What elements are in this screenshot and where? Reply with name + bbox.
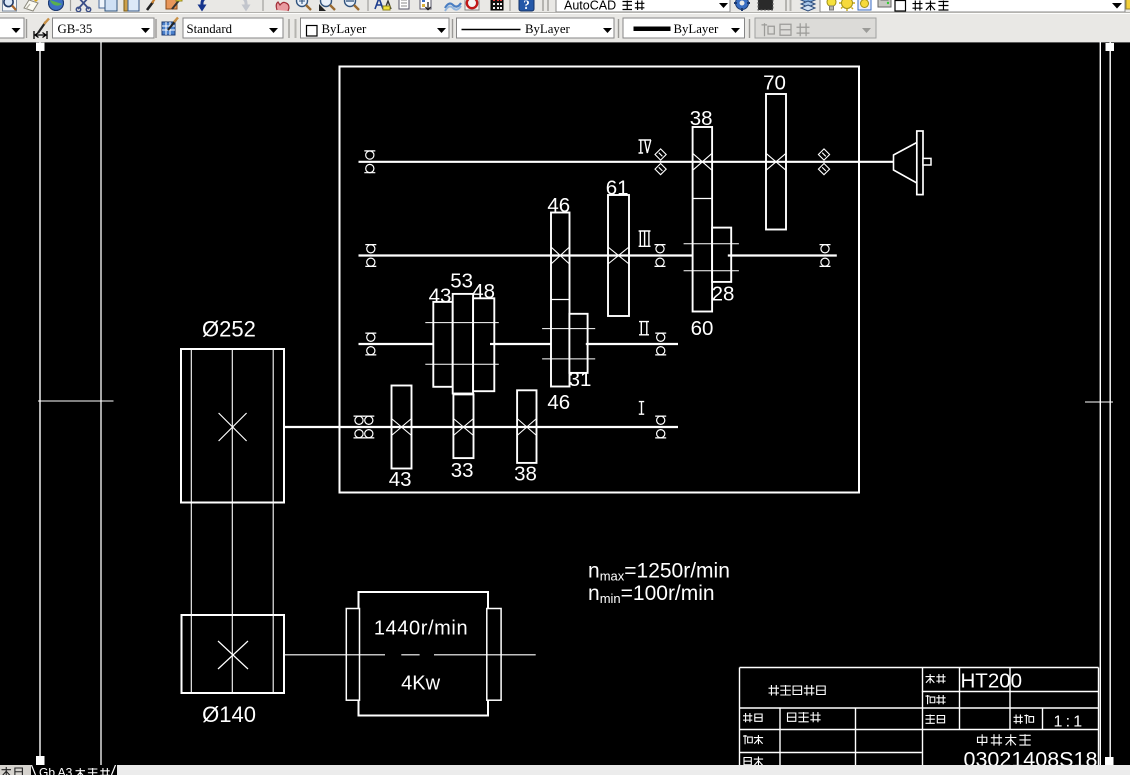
lineweight combo (623, 18, 745, 38)
X mark gear 33 (453, 419, 473, 436)
svg-text:31: 31 (569, 368, 592, 391)
layer state printer (878, 0, 891, 7)
gear 31 on shaft II (569, 314, 587, 373)
bearing shaft III mid (655, 245, 666, 267)
label 材料 (926, 674, 935, 683)
grip top-right (1106, 43, 1115, 51)
X mark pulley D140 (218, 641, 248, 669)
icon my workspace (758, 0, 773, 10)
shaft II stub in gear 31 (586, 343, 588, 345)
bearing shaft III right (820, 245, 831, 267)
separator (262, 0, 264, 11)
workspace combo arrow (719, 3, 728, 8)
separator (749, 19, 751, 38)
shaft III line (359, 254, 837, 256)
svg-text:60: 60 (691, 317, 714, 340)
svg-text:GB-35: GB-35 (58, 22, 93, 36)
svg-text:4Kw: 4Kw (401, 673, 440, 695)
svg-text:ByLayer: ByLayer (525, 22, 571, 36)
icon print preview (3, 0, 17, 11)
plot style text 随颜色 (762, 23, 775, 36)
output coupling bar (917, 131, 923, 195)
svg-text:Ø252: Ø252 (202, 317, 256, 342)
svg-text:Ø140: Ø140 (202, 702, 256, 727)
pulley D140 (182, 615, 285, 693)
left centering mark (38, 400, 114, 402)
svg-text:nmin=100r/min: nmin=100r/min (588, 582, 715, 606)
layer combo arrow (1112, 3, 1122, 9)
gear 46 block division (551, 299, 570, 301)
label 比例 (1014, 715, 1023, 724)
gear 28 (712, 228, 731, 282)
sheet left outer border line (39, 42, 41, 765)
svg-text:53: 53 (450, 270, 473, 293)
label shaft III (639, 231, 651, 246)
shaft IV line (359, 161, 894, 163)
icon zoom realtime (297, 0, 312, 10)
label 件数 (926, 695, 935, 704)
separator (367, 0, 369, 11)
sheet left inner border line (100, 42, 102, 765)
icon text find (375, 0, 391, 10)
icon block color (166, 0, 182, 9)
bearing shaft II right (655, 333, 666, 355)
X mark gear 38 shaft I (517, 419, 536, 436)
icon paste (124, 0, 139, 11)
X mark pulley D252 (219, 413, 247, 441)
svg-text:HT200: HT200 (961, 670, 1023, 693)
layer name 粗实线 (913, 1, 923, 11)
label 指导 (743, 735, 752, 744)
tab separator backslash (32, 765, 36, 775)
X mark gear 43 (392, 419, 412, 436)
icon plot red circle (465, 0, 479, 10)
name 商者洲 (788, 713, 796, 721)
shaft III through gear 46 (551, 254, 570, 256)
X mark gear 38 (693, 153, 712, 170)
shaft III stub in gear 28 (728, 254, 731, 256)
svg-text:ByLayer: ByLayer (322, 22, 368, 36)
icon make layer current (partial) (1126, 0, 1130, 9)
linetype combo (457, 18, 615, 38)
svg-text:43: 43 (429, 285, 452, 308)
output coupling tab (923, 158, 931, 165)
motor box (359, 592, 489, 716)
gearbox frame (340, 67, 860, 493)
svg-text:ByLayer: ByLayer (674, 22, 720, 36)
linetype sample (462, 29, 521, 31)
icon table style (162, 18, 178, 36)
gear 48 on shaft II (473, 298, 494, 391)
lineweight sample (634, 27, 671, 32)
diamond bearing shaft IV a (655, 149, 666, 175)
X mark gear 61 (608, 247, 629, 264)
belt right edge (272, 349, 274, 693)
svg-text:28: 28 (712, 283, 735, 306)
separator (155, 19, 157, 38)
grip bottom-right (1105, 757, 1114, 765)
icon redo (234, 0, 251, 12)
right centering mark (1085, 401, 1113, 403)
pitch lines cluster 60-28 (684, 244, 739, 271)
icon pan hand (276, 2, 289, 11)
diamond bearing shaft IV b (818, 149, 829, 175)
gear block 38/60 division (693, 198, 713, 200)
svg-text:38: 38 (514, 462, 537, 485)
icon cut scissors (76, 0, 90, 12)
bearing shaft IV left (364, 151, 375, 173)
svg-text:46: 46 (547, 194, 570, 217)
gear 38 on shaft I (517, 390, 536, 463)
gear block 38/60 (693, 127, 713, 312)
svg-text:43: 43 (389, 468, 412, 491)
drag handles (785, 0, 787, 11)
gear 46/46 block shaft III-II (551, 213, 570, 387)
motor centerline (284, 654, 536, 656)
svg-text:70: 70 (763, 72, 786, 95)
color ByLayer combo (301, 18, 450, 38)
title text 传动系统图 (769, 685, 780, 696)
GB-35 combo (53, 18, 155, 38)
gear 33 on shaft I (453, 394, 473, 458)
pulley center axis line (231, 349, 233, 693)
icon layer props (420, 0, 431, 10)
svg-text:46: 46 (547, 391, 570, 414)
label 重量 (926, 715, 935, 724)
icon dim style (34, 19, 49, 40)
label shaft II (639, 322, 649, 335)
gear 61 (608, 195, 629, 316)
svg-text:nmax=1250r/min: nmax=1250r/min (588, 560, 730, 584)
label shaft IV (639, 140, 652, 153)
label 审查 (cut) (744, 758, 751, 765)
bearing shaft I left b (363, 416, 374, 438)
separator (452, 19, 454, 38)
model tab background (0, 765, 31, 775)
tab bar empty area (117, 765, 1130, 775)
shaft I line (284, 426, 678, 428)
bearing shaft II left (365, 333, 376, 355)
toolbar drag handles (542, 0, 544, 11)
icon zoom previous (345, 0, 360, 10)
svg-text:61: 61 (606, 176, 629, 199)
layer state lock/sun (858, 0, 871, 10)
bearing shaft I right (655, 416, 666, 438)
icon match brush (147, 0, 156, 10)
shaft II line (359, 343, 679, 345)
icon spell (24, 0, 38, 11)
pitch lines cluster 43-53-48 (425, 323, 499, 365)
plot style combo (disabled) (755, 18, 876, 38)
svg-text:03021408S18: 03021408S18 (964, 748, 1098, 766)
gear 53 on shaft II (453, 294, 473, 394)
svg-text:Gb A3: Gb A3 (39, 766, 73, 775)
school 中北大学 (978, 734, 987, 745)
X mark gear 70 (766, 153, 786, 170)
icon render (445, 3, 461, 11)
label shaft I (639, 402, 644, 415)
canvas top shadow edge (0, 42, 1130, 44)
pulley D252 (181, 349, 284, 503)
color swatch (307, 26, 318, 37)
motor left tab (346, 609, 359, 701)
X mark gear 46 (551, 247, 569, 264)
separator (26, 19, 28, 38)
icon copy (99, 0, 117, 11)
svg-text:1 : 1: 1 : 1 (1054, 714, 1083, 731)
layer state bulb (827, 0, 836, 10)
layer color swatch (895, 1, 906, 12)
icon layers stack (801, 0, 815, 11)
grip top-left (36, 43, 45, 52)
sheet right inner border line (1099, 42, 1101, 765)
svg-text:AutoCAD: AutoCAD (564, 0, 616, 13)
label 制图 (743, 713, 752, 722)
svg-text:38: 38 (690, 107, 713, 130)
dim style combo (cut left) (0, 18, 24, 38)
layer state sun (839, 0, 855, 11)
motor right tab (487, 609, 501, 701)
shaft IV through gear 38 (693, 161, 713, 163)
output coupling cone (894, 143, 917, 184)
title block outer and grid lines (740, 668, 1099, 766)
icon zoom window (319, 0, 335, 11)
icon layers list (399, 0, 409, 9)
icon workspace settings (734, 0, 750, 11)
belt left edge (190, 349, 192, 693)
icon undo (198, 0, 215, 12)
icon help (519, 0, 534, 12)
svg-text:Standard: Standard (187, 22, 233, 36)
workspace combo (556, 0, 730, 13)
grip bottom-left (36, 756, 45, 765)
toolbar drag handles (288, 19, 290, 38)
bearing shaft I left a (354, 416, 365, 438)
shaft II stub in gear 48 (490, 343, 494, 345)
svg-text:?: ? (523, 0, 530, 12)
sheet right outer border line (1109, 42, 1111, 757)
icon quickcalc (491, 0, 503, 10)
separator (618, 19, 620, 38)
gear 43 on shaft II (433, 302, 452, 387)
gear 70 (766, 94, 786, 230)
model tab text 模型 (2, 767, 12, 775)
layer combo field (820, 0, 1125, 12)
pitch lines cluster 46-31 (542, 329, 595, 359)
icon sphere/publish (49, 0, 64, 11)
separator (509, 0, 511, 11)
separator (70, 0, 72, 11)
tab separator slash (112, 765, 116, 775)
svg-text:33: 33 (451, 459, 474, 482)
svg-text:48: 48 (472, 280, 495, 303)
gear 43 on shaft I (392, 386, 412, 469)
bearing shaft III left (365, 245, 376, 267)
Standard combo (183, 18, 283, 38)
active tab text 标题栏 (76, 768, 86, 775)
svg-text:1440r/min: 1440r/min (374, 618, 468, 640)
